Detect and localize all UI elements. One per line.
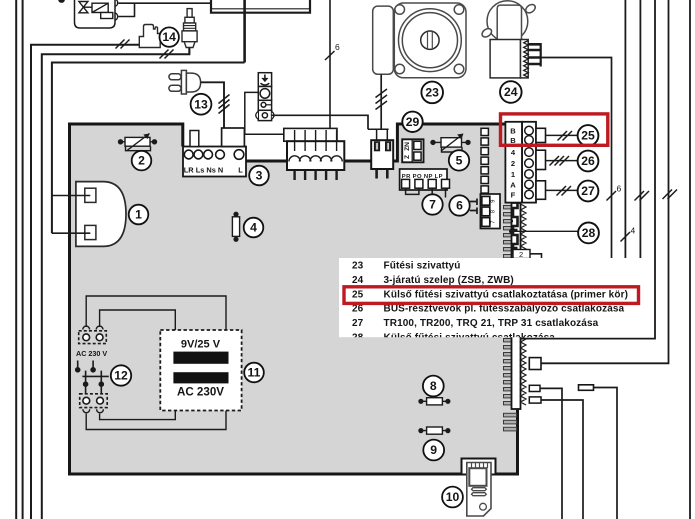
svg-text:AC 230V: AC 230V [177, 386, 224, 399]
svg-text:28: 28 [582, 226, 596, 240]
label circle 2 [132, 151, 152, 171]
terminal strip 3 (LR Ls Ns N L) [183, 147, 246, 177]
wire to 25 [546, 134, 578, 136]
socket square column (right edge of relay PCB) [481, 128, 488, 193]
wire valve24 to right [541, 58, 612, 337]
comb meander (upper dark section) [512, 203, 518, 257]
terminal block PR PO NP LP [400, 169, 450, 190]
lower comb teeth [504, 413, 517, 431]
svg-text:9V/25 V: 9V/25 V [181, 339, 221, 351]
svg-text:1: 1 [135, 208, 142, 222]
cable clamp strip (earth block) [256, 73, 274, 121]
svg-text:13: 13 [194, 97, 208, 111]
red highlight box (terminal 25) [501, 114, 608, 145]
svg-text:2: 2 [511, 159, 515, 168]
main PCB (gray board) [70, 124, 518, 474]
label circle 24 [500, 81, 522, 103]
stub connector B-B [536, 128, 546, 142]
svg-text:6: 6 [456, 199, 463, 213]
svg-text:25: 25 [581, 129, 595, 143]
svg-text:4: 4 [250, 221, 257, 235]
spade terminal [579, 385, 618, 519]
fuse 4 (vertical) [232, 212, 239, 241]
label circle 12 [111, 365, 131, 385]
switch 12 (double pole) [76, 361, 109, 394]
svg-text:8: 8 [430, 379, 437, 393]
label circle 7 [422, 194, 442, 214]
wire slashes left [116, 40, 174, 59]
label circle 27 [578, 181, 599, 202]
stub C [529, 385, 562, 519]
slashes wire 25 [558, 131, 573, 141]
svg-text:24: 24 [504, 85, 518, 99]
svg-text:AC 230 V: AC 230 V [76, 349, 107, 358]
gas valve assembly (top left) [75, 0, 118, 28]
fuse 8 [419, 398, 450, 405]
svg-text:24: 24 [352, 275, 364, 286]
svg-text:2: 2 [138, 154, 145, 168]
red highlight box (legend row 25) [344, 287, 639, 304]
terminal strip B B 4 2 1 A F [505, 122, 536, 203]
svg-text:BUS-résztvevők pl. fűtésszabál: BUS-résztvevők pl. fűtésszabályozó csatl… [384, 304, 625, 315]
svg-text:Külső fűtési szivattyú csatlak: Külső fűtési szivattyú csatlakoztatása (… [384, 289, 629, 300]
adjustable resistor 5 [431, 134, 470, 153]
heating pump 23 [373, 3, 466, 78]
label circle 25 [578, 125, 599, 146]
svg-text:4: 4 [631, 226, 636, 236]
svg-text:3: 3 [256, 169, 263, 183]
label circle 10 [442, 487, 463, 508]
wire spark electrode [189, 48, 191, 55]
label circle 23 [421, 82, 443, 104]
stub D [529, 397, 583, 519]
tab A above terminal 3 [190, 131, 199, 147]
svg-text:6: 6 [335, 42, 340, 52]
5-pin connector block [287, 130, 344, 180]
svg-text:23: 23 [352, 261, 364, 272]
svg-text:9: 9 [491, 200, 497, 203]
slashes pump wire [376, 89, 388, 110]
wire from pump [380, 74, 382, 129]
potentiometer 2 [119, 134, 157, 151]
label circle 3 [249, 166, 269, 186]
connector 6 (pins 9 8 7) [470, 194, 500, 229]
svg-text:23: 23 [425, 86, 439, 100]
svg-text:10: 10 [446, 490, 460, 504]
svg-text:3-járatú szelep (ZSB, ZWB): 3-járatú szelep (ZSB, ZWB) [384, 275, 514, 286]
slashes wire 26 [550, 156, 570, 166]
transformer circuit wires [86, 296, 226, 430]
terminal pair top (AC230V in) [79, 326, 107, 343]
wire to 27 [546, 189, 578, 191]
svg-text:LR Ls Ns N: LR Ls Ns N [184, 166, 223, 175]
tab B above terminal 3 [222, 128, 245, 147]
label circle 9 [423, 440, 444, 461]
svg-text:7: 7 [491, 220, 497, 223]
wires NP LP down [432, 188, 445, 197]
svg-text:27: 27 [352, 318, 364, 329]
connector 1 (D-plug) [76, 182, 126, 247]
junction dot + wire to 28 [509, 229, 578, 234]
svg-text:5: 5 [456, 154, 463, 168]
wire clamp to 5pin connector [245, 92, 284, 134]
svg-text:6: 6 [617, 184, 622, 194]
wire to 26 [546, 160, 578, 162]
stub connector A-F [536, 181, 546, 200]
svg-text:Fűtési szivattyú: Fűtési szivattyú [384, 261, 461, 272]
wires to connector 1 [52, 196, 90, 234]
terminal pair bottom [80, 394, 108, 413]
svg-text:12: 12 [114, 369, 128, 383]
label circle 28 [578, 223, 599, 244]
svg-text:27: 27 [581, 184, 595, 198]
wire from gas valve [118, 3, 211, 16]
spark electrode icon [182, 9, 197, 48]
left wire harness (mains leads) [16, 0, 244, 519]
label circle 13 [191, 94, 212, 115]
legend box [339, 258, 654, 344]
mains plug icon 13 [169, 70, 201, 94]
control unit box (top, cut off) [211, 0, 310, 13]
PCB border edges [70, 124, 518, 474]
5-pin connector upper housing [284, 128, 337, 141]
slashes on cord 13 [219, 95, 230, 114]
ignition transformer icon 14 [139, 25, 160, 48]
fuse 9 [419, 427, 450, 434]
transformer 11 [160, 330, 241, 411]
svg-text:25: 25 [352, 289, 364, 300]
label circle 6 [449, 195, 469, 215]
svg-text:8: 8 [491, 210, 497, 213]
svg-text:TR100, TR200, TRQ 21, TRP 31 c: TR100, TR200, TRQ 21, TRP 31 csatlakozás… [384, 318, 599, 329]
service plug 10 [467, 463, 491, 517]
valve 24 zigzag connector [521, 40, 541, 78]
label circle 4 [244, 218, 264, 238]
svg-text:A: A [510, 180, 516, 189]
svg-text:26: 26 [352, 304, 364, 315]
svg-text:26: 26 [581, 154, 595, 168]
slashes wire 27 [557, 186, 572, 196]
svg-text:7: 7 [429, 198, 436, 212]
label circle 11 [244, 363, 264, 383]
jumper PR-PO [406, 188, 419, 194]
wire 6 from top [329, 0, 331, 128]
terminal block ZN Z [402, 139, 423, 162]
svg-text:B: B [510, 127, 516, 136]
svg-text:ZN: ZN [404, 142, 411, 151]
svg-text:L: L [238, 166, 243, 175]
slash + label 6 (top wire) [325, 42, 340, 60]
3-way valve 24 [480, 1, 536, 78]
stub connector 4-2 [536, 150, 546, 169]
PCB edge connector comb [504, 203, 527, 409]
cord from plug 13 [201, 82, 224, 128]
label circle 8 [423, 376, 444, 397]
slashes + labels right wires [607, 184, 678, 242]
pin 2 tap [513, 250, 542, 260]
stub B (to top right wire) [529, 358, 541, 370]
label circle 29 [402, 112, 422, 132]
label circle 26 [578, 151, 599, 172]
cut-off circle label top-left [58, 0, 65, 3]
svg-text:9: 9 [430, 443, 437, 457]
right long wires [521, 0, 690, 519]
service connector 10 socket [462, 459, 496, 475]
2-pin connector [368, 129, 393, 178]
svg-text:2: 2 [519, 250, 523, 259]
svg-text:14: 14 [162, 30, 176, 44]
svg-text:B: B [510, 136, 516, 145]
label circle 1 [129, 205, 149, 225]
label circle 5 [449, 150, 469, 170]
svg-text:Z: Z [404, 155, 411, 159]
wire clamp right to 2pin [272, 115, 368, 129]
svg-text:F: F [511, 191, 516, 200]
svg-text:11: 11 [248, 366, 261, 380]
label circle 14 [160, 27, 179, 46]
svg-text:29: 29 [406, 115, 420, 129]
